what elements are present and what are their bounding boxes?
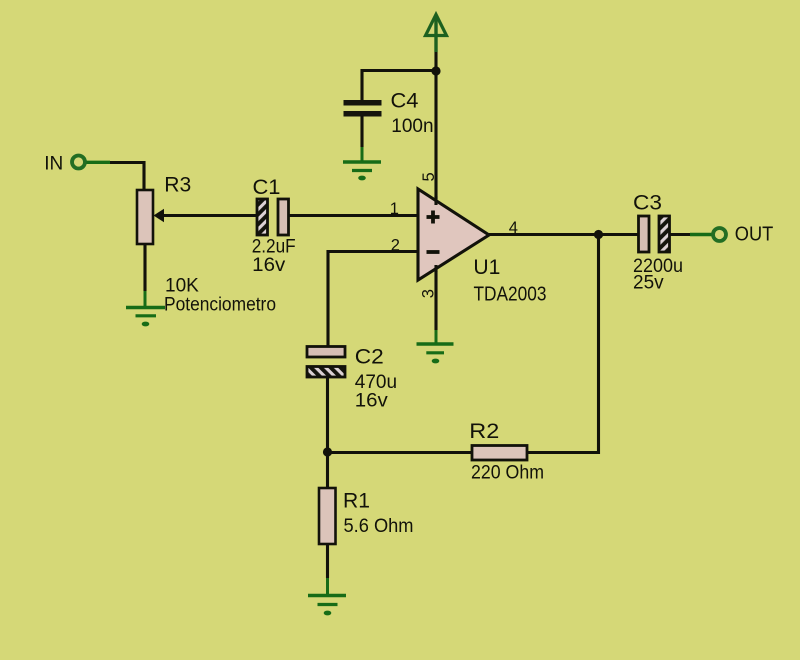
resistor R2 body — [472, 446, 527, 461]
svg-text:R1: R1 — [343, 490, 370, 513]
op-amp plus symbol — [427, 211, 440, 224]
wire C3 to OUT — [670, 233, 712, 236]
wire C1 to op-amp pin 1 — [289, 214, 419, 217]
wire pin 2 horizontal — [327, 250, 419, 253]
svg-text:16v: 16v — [355, 391, 389, 412]
ground below C4 — [343, 162, 381, 180]
IN terminal circle — [72, 156, 85, 169]
R3 wiper arrow — [154, 209, 258, 223]
svg-text:C4: C4 — [391, 89, 419, 112]
resistor R1 body — [319, 488, 336, 544]
svg-text:16v: 16v — [252, 255, 286, 276]
svg-text:OUT: OUT — [735, 224, 774, 246]
svg-text:10K: 10K — [165, 276, 199, 297]
svg-text:R2: R2 — [469, 420, 499, 443]
svg-text:2: 2 — [391, 237, 400, 255]
capacitor C3 negative plate (hatched) — [659, 216, 670, 252]
wire op-amp pin 3 down — [434, 271, 437, 343]
capacitor C4 plates — [344, 100, 382, 117]
wire output node down to R2 — [597, 235, 600, 455]
op-amp minus symbol — [427, 250, 440, 254]
wire power rail vertical to op-amp pin 5 — [434, 52, 437, 199]
svg-text:1: 1 — [390, 200, 399, 218]
wire R3 bottom lead — [143, 244, 146, 306]
wire C2 bottom lead — [326, 377, 329, 453]
potentiometer R3 body — [137, 190, 153, 244]
svg-text:TDA2003: TDA2003 — [474, 284, 547, 306]
svg-text:5: 5 — [420, 172, 438, 181]
svg-text:C3: C3 — [633, 192, 662, 215]
wire feedback node down to R1 — [326, 452, 329, 489]
wire pin5 stub into triangle — [434, 196, 437, 205]
svg-text:C2: C2 — [355, 345, 384, 368]
ground below R1 — [308, 596, 346, 616]
junction dot power node — [431, 66, 440, 75]
wire C4 bottom lead — [360, 116, 363, 161]
wire R2 to output corner — [527, 451, 600, 454]
wire R1 bottom lead — [326, 544, 329, 594]
svg-text:25v: 25v — [633, 273, 664, 294]
wire feedback node to R2 — [328, 451, 473, 454]
capacitor C2 negative plate (hatched) — [307, 367, 345, 378]
wire pin3 stub into triangle — [434, 265, 437, 272]
junction dot output node — [594, 230, 603, 239]
capacitor C1 negative plate (hatched) — [257, 199, 268, 235]
wire pin2 corner down to C2 — [326, 250, 329, 346]
ground below op-amp — [417, 344, 454, 363]
power supply arrow (V+) — [426, 15, 447, 53]
svg-text:4: 4 — [509, 219, 518, 237]
wire C4 top lead — [360, 69, 363, 101]
svg-text:IN: IN — [44, 154, 63, 175]
svg-text:R3: R3 — [164, 174, 191, 197]
svg-text:220 Ohm: 220 Ohm — [471, 462, 544, 483]
junction dot feedback node — [323, 447, 332, 456]
svg-text:U1: U1 — [473, 256, 500, 279]
wire op-amp output pin 4 — [489, 233, 639, 236]
ground below R3 — [126, 308, 165, 327]
svg-text:Potenciometro: Potenciometro — [164, 295, 276, 316]
OUT terminal circle — [713, 228, 726, 241]
capacitor C3 positive plate — [639, 216, 650, 252]
svg-text:5.6 Ohm: 5.6 Ohm — [344, 516, 414, 537]
capacitor C2 positive plate — [307, 347, 345, 358]
capacitor C1 positive plate — [278, 199, 289, 235]
wire IN to corner — [87, 161, 146, 191]
op-amp U1 triangle — [418, 189, 489, 280]
svg-text:100n: 100n — [391, 116, 433, 137]
wire power node to C4 — [361, 69, 437, 72]
svg-text:C1: C1 — [253, 176, 281, 199]
